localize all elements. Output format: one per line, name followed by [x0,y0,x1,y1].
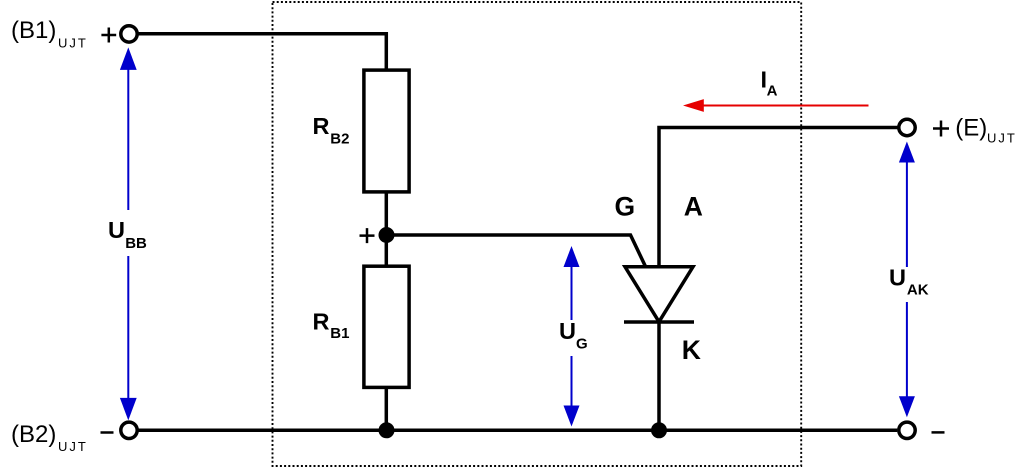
plus sign at E [933,121,949,137]
svg-text:U: U [108,217,125,243]
bottom rail wire [138,429,897,433]
node at divider (junction dot) [379,227,395,243]
minus sign at B2 [101,431,114,434]
wire RB1 bottom to bottom rail [385,387,389,430]
terminal B2 (open circle) [121,422,137,438]
svg-text:AK: AK [907,282,929,299]
svg-text:UJT: UJT [58,35,88,50]
thyristor triangle (anode-cathode) [625,267,693,322]
gate wire from node to thyristor gate [387,235,647,268]
terminal B1 (open circle) [121,26,137,42]
plus sign at divider node [360,228,375,243]
cathode wire to bottom rail [657,322,661,430]
dashed enclosure box [273,2,802,466]
svg-text:R: R [313,309,330,335]
resistor RB1 [364,266,409,387]
junction dot bottom left [379,422,395,438]
minus sign at bottom right terminal [932,431,945,434]
svg-text:A: A [767,83,778,100]
voltage arrow UAK (blue double arrow) [899,142,915,418]
voltage arrow UBB (blue double arrow) [120,47,137,420]
svg-text:U: U [559,318,576,344]
plus sign at B1 [101,28,116,43]
svg-text:(B2): (B2) [11,421,56,448]
junction dot bottom right [651,422,667,438]
svg-text:G: G [576,336,588,353]
svg-text:(E): (E) [955,114,987,141]
svg-text:UJT: UJT [58,439,88,454]
voltage arrow UG (blue double arrow) [564,246,580,427]
wire B1 terminal to resistor RB2 top [138,34,386,70]
wire RB2 bottom to node [385,191,389,266]
svg-text:K: K [682,335,701,365]
anode wire: E terminal to thyristor [659,128,898,269]
terminal bottom-right (open circle) [899,422,915,438]
resistor RB2 [364,70,409,192]
current arrow IA (red) [683,99,869,112]
svg-text:B1: B1 [330,325,349,342]
svg-text:B2: B2 [330,130,349,147]
svg-text:U: U [889,265,906,291]
svg-text:BB: BB [125,235,147,252]
svg-text:(B1): (B1) [11,17,56,44]
svg-text:G: G [615,191,636,221]
thyristor cathode bar [624,320,694,324]
svg-text:R: R [313,113,330,139]
svg-text:UJT: UJT [987,130,1017,145]
terminal E (open circle) [899,119,915,135]
svg-text:A: A [684,191,703,221]
